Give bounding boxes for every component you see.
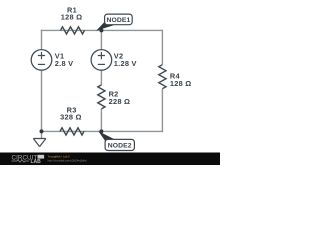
svg-text:2.8 V: 2.8 V	[55, 59, 74, 68]
NODE1 box	[105, 14, 133, 25]
svg-text:328 Ω: 328 Ω	[60, 113, 82, 122]
NODE2 flag tail	[98, 131, 114, 141]
V2 minus sign	[98, 63, 105, 65]
junction dot left-bottom	[40, 129, 44, 133]
V1 plus sign	[38, 52, 45, 59]
svg-text:128 Ω: 128 Ω	[170, 79, 192, 88]
resistor R3	[60, 128, 84, 135]
wire middle branch upper	[100, 30, 102, 49]
watermark url text	[48, 159, 87, 163]
watermark title text	[48, 154, 71, 158]
logo wire line with zigzag	[12, 160, 30, 162]
ground	[33, 139, 46, 147]
V2 plus sign	[98, 52, 105, 59]
wire middle branch lower	[100, 109, 102, 131]
wire left branch lower	[41, 70, 43, 131]
logo white block	[38, 155, 45, 159]
V1 minus sign	[38, 63, 45, 65]
svg-text:LAB: LAB	[31, 159, 42, 165]
svg-text:YoungMok / Lab 2: YoungMok / Lab 2	[48, 154, 71, 158]
resistor R2	[98, 85, 105, 109]
NODE2 box	[105, 139, 134, 150]
resistor R1	[61, 27, 85, 34]
svg-text:1.28 V: 1.28 V	[114, 59, 137, 68]
wire ground stem	[41, 131, 43, 138]
wire middle branch mid	[100, 70, 102, 85]
svg-text:228 Ω: 228 Ω	[109, 97, 131, 106]
wire top rail	[41, 29, 163, 31]
wire left branch upper	[41, 30, 43, 50]
svg-text:http://circuitlab.com/c2jh24rq: http://circuitlab.com/c2jh24rq3dkz/	[48, 159, 87, 163]
voltage source V1	[31, 50, 52, 71]
wire right branch lower	[161, 89, 163, 132]
voltage source V2	[91, 50, 112, 71]
wire right branch upper	[161, 30, 163, 65]
junction dot bottom (NODE2)	[99, 129, 103, 133]
svg-text:NODE2: NODE2	[108, 142, 132, 149]
NODE1 flag tail	[96, 22, 113, 31]
resistor R4	[159, 65, 166, 89]
svg-text:128 Ω: 128 Ω	[61, 13, 83, 22]
svg-text:NODE1: NODE1	[106, 17, 130, 24]
junction dot top (NODE1)	[99, 28, 103, 32]
watermark bar	[0, 153, 220, 166]
wire bottom rail	[42, 130, 164, 132]
